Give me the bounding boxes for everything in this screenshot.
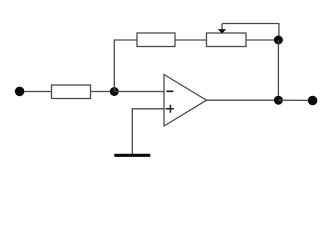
resistor R2 bbox=[137, 33, 175, 47]
op-amp U1 plus label bbox=[166, 105, 174, 113]
wire node C to OUT bbox=[278, 99, 308, 101]
wire IN to R1 bbox=[24, 91, 52, 93]
op-amp U1 bbox=[164, 75, 207, 127]
wire wiper loop to node B bbox=[222, 24, 279, 41]
node OUT terminal dot bbox=[308, 96, 318, 106]
wire R1 to node A bbox=[91, 91, 115, 93]
wire P1 to node B bbox=[246, 39, 278, 41]
potentiometer P1 body bbox=[207, 33, 247, 47]
potentiometer P1 wiper arrow bbox=[221, 24, 223, 31]
node C junction dot bbox=[274, 96, 283, 105]
resistor R1 bbox=[52, 85, 91, 99]
ground bbox=[114, 154, 150, 157]
wire op-amp non-inverting input to ground bbox=[132, 109, 164, 154]
node B junction dot bbox=[274, 36, 283, 45]
wire node A up to feedback rail bbox=[114, 40, 137, 92]
node IN terminal dot bbox=[15, 87, 25, 97]
wire R2 to P1 bbox=[175, 39, 207, 41]
op-amp U1 minus label bbox=[166, 90, 173, 92]
node A junction dot bbox=[110, 87, 119, 96]
wire op-amp output to node C bbox=[207, 99, 279, 101]
wire node A to op-amp inverting input bbox=[114, 91, 164, 93]
wire node B down to node C bbox=[277, 40, 279, 100]
